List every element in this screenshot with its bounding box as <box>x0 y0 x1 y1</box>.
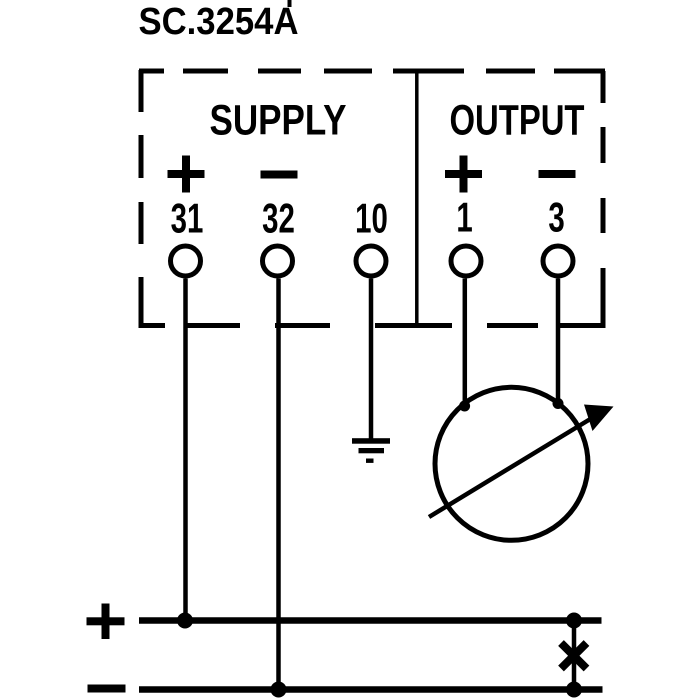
svg-text:10: 10 <box>355 194 388 242</box>
svg-text:SUPPLY: SUPPLY <box>210 97 347 145</box>
svg-text:SC.3254A: SC.3254A <box>139 1 299 43</box>
svg-text:OUTPUT: OUTPUT <box>450 97 585 145</box>
svg-text:1: 1 <box>456 193 472 241</box>
svg-text:31: 31 <box>171 194 204 242</box>
svg-text:32: 32 <box>262 194 295 242</box>
svg-text:3: 3 <box>548 193 564 241</box>
